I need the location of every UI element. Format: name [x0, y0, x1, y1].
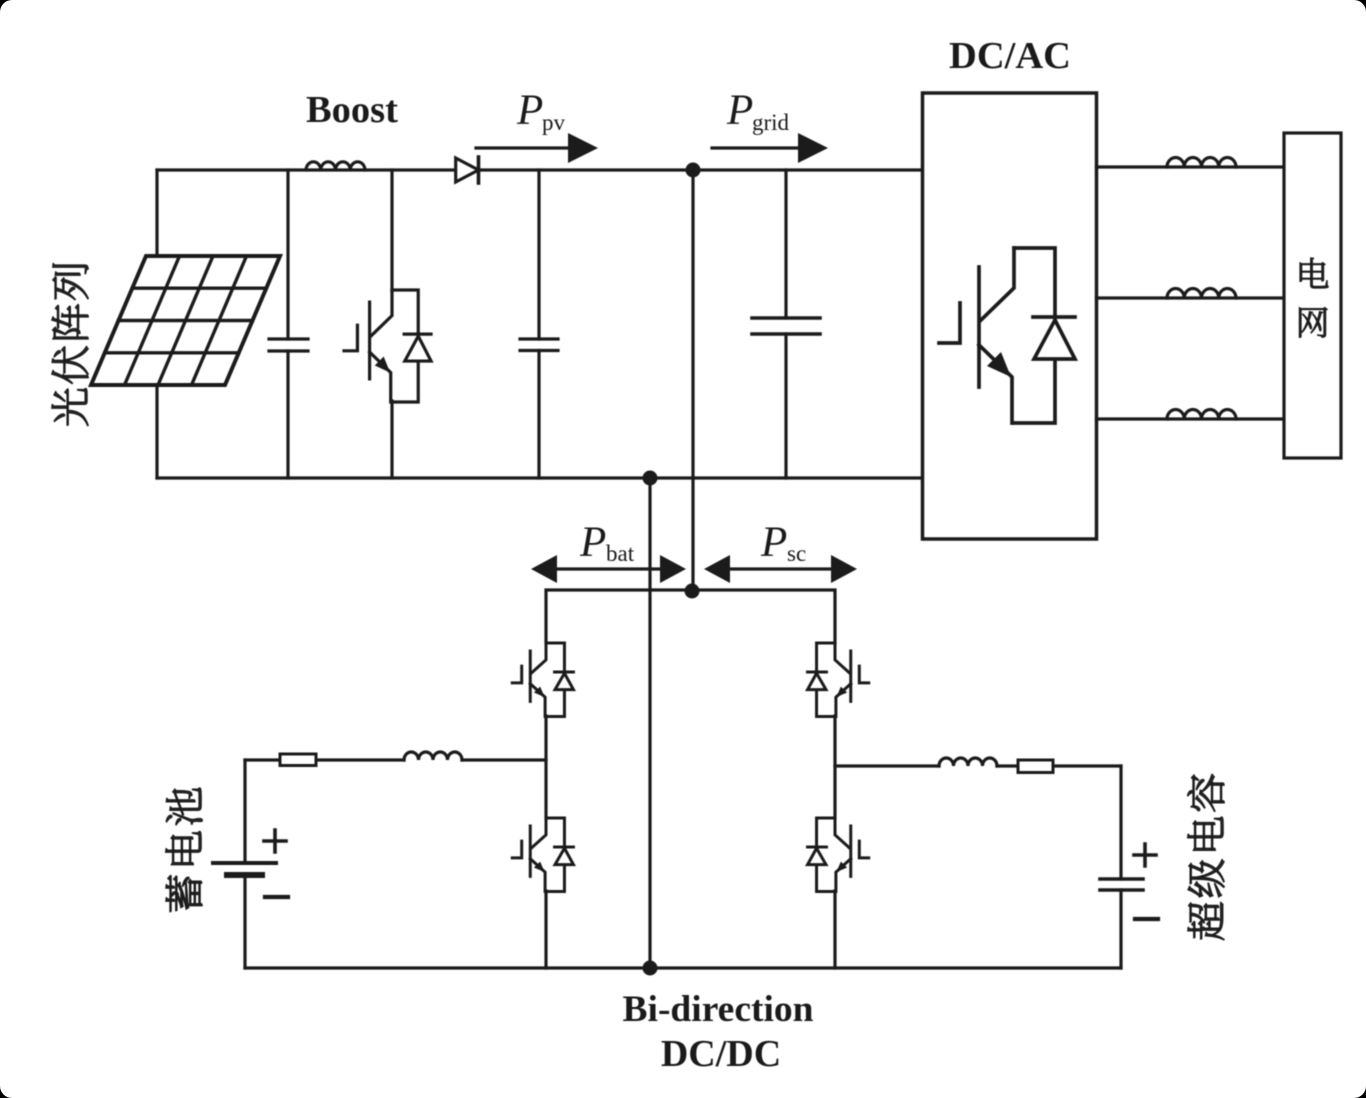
box grid (电网)	[1284, 133, 1341, 458]
inductor L-bat	[404, 752, 462, 760]
wire AC phase C	[1097, 417, 1285, 420]
node DC link top (junction dot)	[686, 163, 701, 178]
PV array panel	[91, 256, 280, 385]
svg-text:DC/AC: DC/AC	[949, 35, 1071, 77]
resistor R-bat	[280, 754, 316, 766]
svg-text:pv: pv	[542, 110, 566, 135]
wire bottom rail	[245, 966, 1121, 969]
svg-text:P: P	[579, 519, 606, 566]
arrow P_pv	[476, 133, 598, 163]
label supercap minus	[1135, 917, 1158, 921]
wire battery leg middle	[544, 716, 547, 818]
arrow P_bat (double)	[531, 555, 686, 583]
transistor Q2 battery leg upper IGBT	[512, 643, 573, 717]
inductor L-boost	[306, 162, 365, 170]
transistor Q5 SC leg lower IGBT (mirrored)	[808, 818, 869, 892]
wire AC phase B	[1097, 296, 1285, 299]
wire battery leg bottom	[544, 891, 547, 968]
label P_sc	[760, 519, 806, 566]
svg-text:Boost: Boost	[306, 89, 398, 131]
label P_grid with arrow	[726, 87, 790, 135]
resistor R-sc	[1018, 760, 1053, 773]
svg-text:grid: grid	[752, 110, 790, 135]
inductor filter La	[1167, 157, 1236, 167]
svg-text:sc: sc	[787, 541, 806, 566]
wire bi-direction top bus	[546, 590, 835, 643]
capacitor C1 (PV input cap)	[269, 170, 308, 478]
arrow P_sc (double)	[704, 555, 857, 583]
wire supercap branch	[835, 764, 1121, 767]
wire bottom DC bus	[157, 476, 922, 479]
svg-text:P: P	[760, 519, 787, 566]
wire negative bus down to bottom rail	[648, 478, 651, 968]
transistor Q4 SC leg upper IGBT (mirrored)	[808, 643, 869, 717]
capacitor C2 (boost output cap)	[520, 170, 558, 478]
text 超级电容	[1188, 774, 1225, 939]
label battery plus	[264, 830, 286, 852]
text 电网	[1299, 258, 1328, 338]
battery B1 (蓄电池)	[213, 760, 276, 968]
svg-text:P: P	[516, 87, 543, 134]
svg-text:Bi-direction: Bi-direction	[623, 989, 814, 1030]
svg-text:bat: bat	[606, 541, 635, 566]
arrow P_grid	[712, 133, 828, 163]
label P_pv with arrow	[516, 87, 566, 135]
supercapacitor C-sc (超级电容)	[1100, 766, 1143, 968]
svg-text:P: P	[726, 87, 753, 134]
wire PV left leg	[155, 170, 158, 478]
svg-text:DC/DC: DC/DC	[661, 1033, 781, 1075]
wire top DC bus	[157, 168, 922, 171]
wire SC leg bottom	[833, 891, 836, 968]
diode D1	[456, 157, 479, 183]
box DC/AC inverter U1	[923, 93, 1097, 539]
node bi-direction bus junction	[685, 584, 700, 599]
inductor filter Lc	[1167, 409, 1236, 419]
wire battery branch	[245, 758, 546, 761]
wire AC phase A	[1097, 165, 1285, 168]
transistor Q3 battery leg lower IGBT	[512, 818, 573, 892]
label battery minus	[265, 895, 288, 899]
capacitor C3 (DC link cap)	[752, 170, 820, 478]
transistor inverter IGBT icon	[939, 248, 1075, 423]
label supercap plus	[1134, 844, 1156, 866]
label P_bat	[579, 519, 635, 566]
inductor L-sc	[939, 758, 997, 766]
transistor Q1 boost IGBT leg	[344, 170, 431, 478]
node negative bus junction	[643, 471, 658, 486]
wire SC leg middle	[833, 716, 836, 818]
text 蓄电池	[166, 788, 203, 912]
wire DC link down to bi-direction bus	[691, 170, 694, 591]
text 光伏阵列	[52, 264, 89, 426]
node bottom rail junction	[643, 961, 658, 976]
inductor filter Lb	[1167, 288, 1236, 298]
